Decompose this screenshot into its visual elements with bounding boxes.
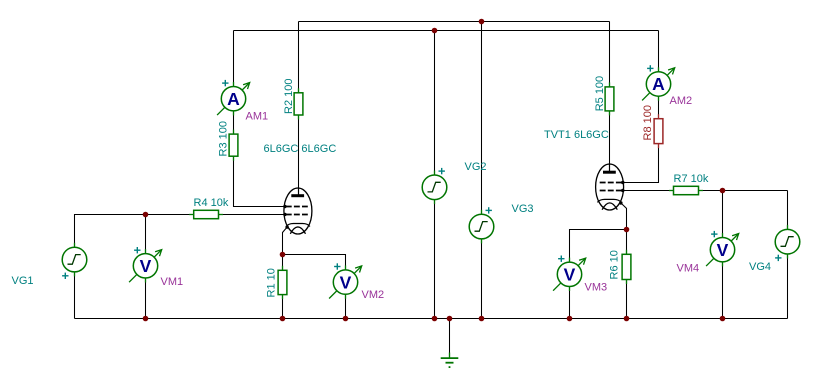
wire R8 to grid2 of right tube (623, 144, 659, 183)
wire right cathode lead (621, 203, 627, 230)
voltage generator VG3 (469, 207, 494, 243)
svg-text:TVT1 6L6GC: TVT1 6L6GC (544, 129, 609, 141)
node rail / VM4 (720, 316, 726, 322)
node rail / ground (447, 316, 453, 322)
svg-text:R3 100: R3 100 (217, 121, 229, 156)
node rail / R1 (280, 316, 286, 322)
svg-text:VM1: VM1 (161, 276, 184, 288)
wire VG4 upper (787, 191, 789, 230)
wire VG2 lower (434, 200, 436, 319)
resistor R4 (189, 210, 223, 218)
wire VG4 lower (787, 254, 789, 318)
wire R3 to grid2 of left tube (234, 156, 286, 206)
wire AM2 to R8 (658, 96, 660, 119)
node rail / VM2 (343, 316, 349, 322)
wire VG3 lower (481, 239, 483, 319)
wire R6 lower (626, 280, 628, 319)
wire top rail A (299, 21, 610, 23)
node left cathode (280, 252, 286, 258)
wire VM3 lower (569, 287, 571, 319)
node grid line / VM1 (143, 212, 149, 218)
wire AM1 feed (233, 31, 235, 88)
resistor R6 (622, 250, 631, 284)
node rail / VG3 (479, 316, 485, 322)
voltmeter VM1 (129, 247, 162, 283)
ammeter AM1 (217, 80, 250, 116)
label R7 10k (674, 173, 709, 185)
svg-text:R2 100: R2 100 (283, 79, 295, 114)
wire cathode to VM2 (283, 255, 346, 270)
svg-text:R7 10k: R7 10k (674, 173, 709, 185)
label VG4 (749, 261, 771, 273)
wire R7 to VM4 node (699, 190, 788, 192)
wire R2 to plate of left tube (298, 115, 300, 196)
ground (441, 353, 459, 368)
wire AM1 to R3 (233, 111, 235, 135)
wire VM4 column lower (722, 262, 724, 319)
svg-text:R4 10k: R4 10k (194, 197, 229, 209)
node right cathode (624, 227, 630, 233)
node R7 / VM4 (720, 188, 726, 194)
label R6 10 (609, 250, 621, 279)
wire R5 feed (609, 22, 611, 87)
svg-text:V: V (340, 272, 352, 292)
wire VG3 upper (481, 22, 483, 215)
ammeter AM2 (642, 65, 675, 101)
label VM4 (677, 263, 700, 275)
resistor R1 (278, 266, 287, 299)
wire grid1 right tube to R7 (623, 190, 674, 192)
wire VM4 column upper (722, 191, 724, 238)
label VM1 (161, 276, 184, 288)
node rail / VG2 (432, 316, 438, 322)
label AM2 (670, 95, 693, 107)
label TVT1 6L6GC (544, 129, 609, 141)
wire VG2 upper (434, 31, 436, 176)
voltmeter VM4 (706, 231, 739, 267)
wire R2 feed (298, 22, 300, 93)
wire R5 to plate of right tube (609, 111, 611, 172)
node rail B / VG2 (432, 28, 438, 34)
svg-text:VM3: VM3 (585, 282, 608, 294)
svg-text:VG2: VG2 (465, 161, 487, 173)
svg-text:V: V (564, 265, 576, 285)
wire VG1 to grid line (75, 215, 194, 248)
wire VM2 lower (345, 294, 347, 318)
label R3 100 (217, 121, 229, 156)
svg-text:R8 100: R8 100 (642, 105, 654, 140)
svg-text:A: A (652, 74, 665, 94)
svg-text:R6 10: R6 10 (609, 250, 621, 279)
wire R1 lower (282, 295, 284, 319)
label R5 100 (594, 76, 606, 111)
resistor R7 (669, 186, 703, 194)
label R8 100 (642, 105, 654, 140)
wire AM2 feed (658, 31, 660, 73)
label 6L6GC 6L6GC (264, 143, 337, 155)
resistor R8 (654, 114, 663, 148)
label R1 10 (266, 268, 278, 297)
label R2 100 (283, 79, 295, 114)
node rail / VM1 (143, 316, 149, 322)
svg-text:VM4: VM4 (677, 263, 700, 275)
wire cathode to VM3 (570, 230, 627, 263)
svg-text:V: V (140, 256, 152, 276)
node rail A / VG3 (479, 19, 485, 25)
wire VM1 column upper (145, 215, 147, 254)
wire VM1 column lower (145, 278, 147, 319)
svg-text:VG1: VG1 (12, 275, 34, 287)
wire cathode to R1 (282, 255, 284, 271)
resistor R3 (229, 130, 238, 161)
voltage generator VG1 (62, 243, 87, 279)
label AM1 (246, 111, 269, 123)
voltage generator VG2 (422, 168, 447, 204)
label VM3 (585, 282, 608, 294)
wire bottom rail (75, 318, 788, 320)
svg-text:A: A (227, 89, 240, 109)
wire R4 to grid1 of left tube (219, 214, 286, 216)
wire left cathode lead (283, 227, 288, 254)
resistor R5 (605, 82, 614, 115)
label VG1 (12, 275, 34, 287)
wire ground stem (449, 319, 451, 358)
voltage generator VG4 (775, 225, 800, 261)
resistor R2 (294, 88, 303, 119)
svg-text:AM2: AM2 (670, 95, 693, 107)
vacuum tube TVT1 6L6GC (right) (596, 164, 625, 211)
wire VG1 lower (74, 272, 76, 319)
label VM2 (362, 289, 385, 301)
svg-text:AM1: AM1 (246, 111, 269, 123)
svg-text:R1 10: R1 10 (266, 268, 278, 297)
voltmeter VM3 (553, 256, 586, 292)
svg-text:6L6GC 6L6GC: 6L6GC 6L6GC (264, 143, 337, 155)
svg-text:VG3: VG3 (512, 203, 534, 215)
svg-text:VM2: VM2 (362, 289, 385, 301)
svg-text:V: V (717, 240, 729, 260)
label R4 10k (194, 197, 229, 209)
wire top rail B (234, 30, 659, 32)
label VG3 (512, 203, 534, 215)
node rail / R6 (624, 316, 630, 322)
node rail / VM3 (567, 316, 573, 322)
voltmeter VM2 (329, 263, 362, 299)
svg-text:VG4: VG4 (749, 261, 771, 273)
svg-text:R5 100: R5 100 (594, 76, 606, 111)
vacuum tube 6L6GC (left) (283, 188, 312, 235)
label VG2 (465, 161, 487, 173)
wire cathode to R6 (626, 230, 628, 255)
